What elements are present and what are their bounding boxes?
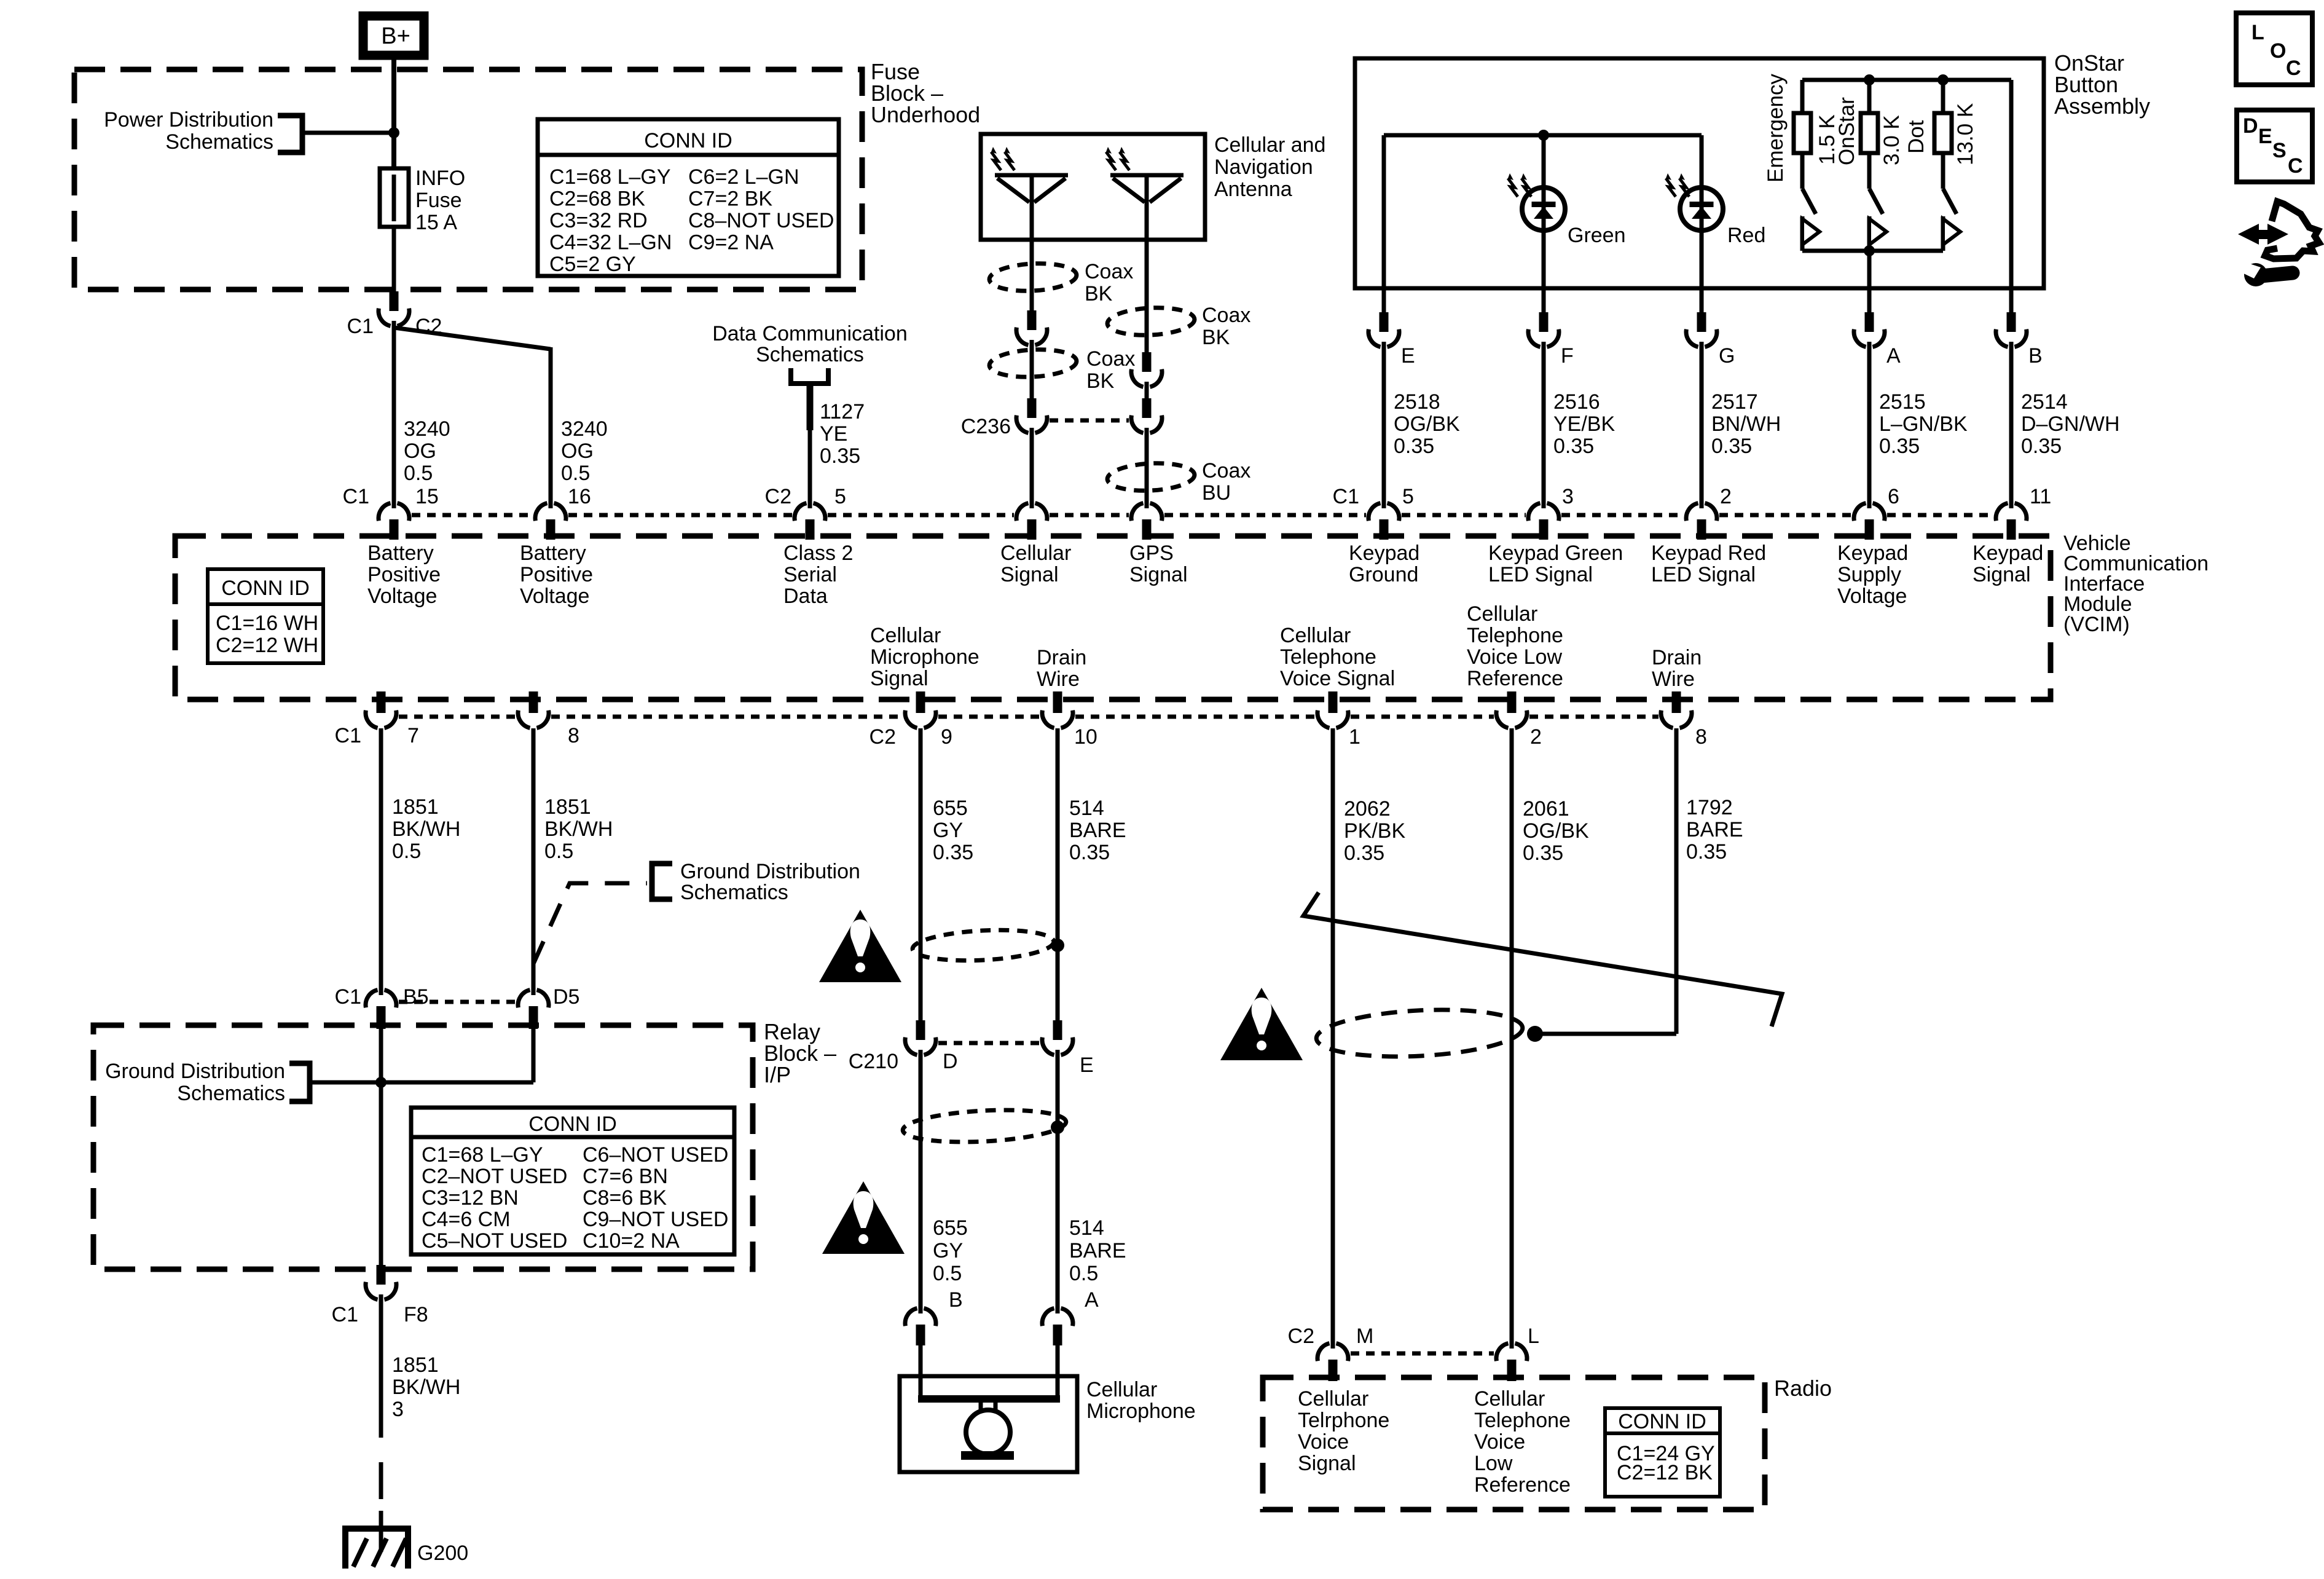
wire switch bus [1802,249,1943,253]
svg-text:GY: GY [933,1239,963,1262]
wire 655 GY upper [919,728,923,1020]
svg-text:0.35: 0.35 [1523,841,1563,865]
svg-text:G: G [1719,344,1735,368]
svg-text:Cellular: Cellular [1086,1378,1157,1401]
wire resistor rail [1802,78,2011,82]
svg-text:Ground Distribution: Ground Distribution [105,1060,285,1083]
connector VCIM top pin at x=896 [549,499,553,508]
svg-text:YE: YE [820,422,847,446]
svg-text:Serial: Serial [783,563,837,586]
svg-text:0.35: 0.35 [1069,841,1110,864]
coax shield ellipse BU [1107,461,1195,492]
OnStar button assembly box [1355,58,2044,288]
svg-text:Keypad Red: Keypad Red [1651,541,1766,565]
svg-text:C2: C2 [1288,1325,1314,1348]
microphone symbol [918,1395,1060,1403]
svg-text:C7=6 BN: C7=6 BN [583,1165,668,1188]
svg-text:C3=12 BN: C3=12 BN [422,1186,519,1210]
svg-text:Keypad: Keypad [1973,541,2043,565]
wire 514 BARE upper [1056,728,1060,1020]
warning triangle radio [1220,988,1303,1060]
svg-text:0.5: 0.5 [404,462,433,485]
connector C210 D half [916,1020,925,1040]
dotted link C236 [1050,419,1129,423]
svg-text:C1: C1 [335,985,361,1009]
svg-text:PK/BK: PK/BK [1344,819,1405,843]
bracket to power distribution [278,116,302,152]
relay block I/P dashed box [93,1025,753,1269]
svg-text:Voltage: Voltage [367,585,437,608]
switch blade S2 [1869,189,1883,214]
svg-text:C1: C1 [1333,485,1359,508]
svg-text:BK/WH: BK/WH [544,817,613,841]
wire bracket to ground node [310,1081,533,1085]
wire 1127 YE [807,384,814,430]
svg-text:1: 1 [1349,725,1360,749]
svg-text:0.35: 0.35 [1879,435,1920,458]
svg-text:Signal: Signal [870,667,928,690]
svg-text:C4=6 CM: C4=6 CM [422,1208,511,1231]
svg-text:Signal: Signal [1298,1452,1356,1475]
connector VCIM top pin at x=641 [392,499,396,508]
svg-text:0.35: 0.35 [1344,841,1384,865]
svg-text:Keypad: Keypad [1349,541,1419,565]
dotted link M L [1351,1352,1494,1356]
svg-text:C9–NOT USED: C9–NOT USED [583,1208,728,1231]
svg-text:3.0 K: 3.0 K [1880,115,1904,165]
svg-text:S: S [2272,139,2287,162]
svg-text:BK: BK [1085,282,1113,305]
svg-text:0.35: 0.35 [1394,435,1434,458]
svg-text:LED Signal: LED Signal [1488,563,1593,586]
svg-text:Coax: Coax [1086,347,1135,371]
svg-text:0.5: 0.5 [392,840,421,863]
svg-text:Signal: Signal [1000,563,1059,586]
svg-text:Positive: Positive [367,563,441,586]
coax shield ellipse left 1 [989,261,1077,293]
svg-text:Telephone: Telephone [1467,624,1563,647]
wire keypad F to VCIM [1542,347,1546,503]
svg-text:1851: 1851 [392,1353,439,1377]
connector VCIM top pin at x=2769 [1700,499,1704,508]
svg-text:Keypad: Keypad [1837,541,1908,565]
svg-text:Class 2: Class 2 [783,541,853,565]
svg-text:2: 2 [1720,485,1732,508]
svg-text:Battery: Battery [367,541,434,565]
svg-text:BU: BU [1202,481,1231,505]
antenna symbol cellular [995,173,1068,178]
svg-text:E: E [1401,344,1415,368]
svg-text:9: 9 [941,725,952,749]
svg-text:C: C [2288,154,2303,178]
power node B+ [363,16,424,55]
connector VCIM bottom pin at x=2460 [1507,691,1517,713]
svg-text:C8=6 BK: C8=6 BK [583,1186,667,1210]
resistor R2 [1867,80,1872,113]
connector VCIM top pin at x=3042 [1867,499,1872,508]
CONN ID table fuse block [538,119,839,276]
svg-text:1127: 1127 [820,400,865,423]
svg-text:Schematics: Schematics [680,881,788,904]
junction dot shield to drain lower [1051,1120,1064,1134]
warning triangle mic lower [822,1181,905,1254]
connector keypad pin E [1382,288,1386,313]
svg-text:0.35: 0.35 [2021,435,2062,458]
svg-text:0.5: 0.5 [933,1262,962,1285]
wire C236 to VCIM cellular [1030,433,1034,503]
wire 1851 BK/WH 3 [379,1300,383,1438]
svg-text:C9=2 NA: C9=2 NA [688,231,774,254]
svg-text:Cellular: Cellular [1000,541,1071,565]
svg-text:Voltage: Voltage [520,585,589,608]
svg-text:CONN ID: CONN ID [528,1112,617,1136]
dotted link B5 D5 [399,1000,516,1004]
wire D5 down [532,1025,536,1082]
svg-text:Power Distribution: Power Distribution [104,108,273,132]
antenna symbol GPS [1110,173,1184,178]
svg-text:OG: OG [561,439,594,463]
svg-text:Telephone: Telephone [1474,1409,1571,1432]
connector VCIM bottom pin at x=1498 [916,691,925,713]
svg-text:11: 11 [2030,485,2051,508]
svg-text:2062: 2062 [1344,797,1391,821]
svg-text:0.5: 0.5 [544,840,573,863]
svg-text:7: 7 [407,724,419,747]
svg-text:Cellular: Cellular [1298,1387,1368,1411]
svg-text:C: C [2286,57,2301,80]
svg-text:C5=2 GY: C5=2 GY [549,253,636,276]
svg-text:0.35: 0.35 [1686,840,1727,864]
svg-text:Coax: Coax [1202,459,1250,482]
svg-text:Green: Green [1568,224,1626,247]
svg-text:Supply: Supply [1837,563,1901,586]
switch pennant S2 [1867,216,1872,251]
svg-text:Radio: Radio [1774,1376,1832,1401]
svg-text:Coax: Coax [1085,260,1133,283]
svg-text:BARE: BARE [1069,1239,1126,1262]
coax shield ellipse left 2 [989,347,1077,379]
svg-text:Telephone: Telephone [1280,645,1376,669]
svg-text:0.35: 0.35 [933,841,973,864]
connector keypad pin B [2009,288,2014,313]
svg-text:A: A [1886,344,1901,368]
svg-text:Ground: Ground [1349,563,1418,586]
wire bracket to B+ node [302,131,394,135]
svg-text:CONN ID: CONN ID [1618,1410,1706,1433]
svg-text:13.0 K: 13.0 K [1953,103,1977,165]
svg-text:Assembly: Assembly [2054,93,2150,119]
svg-text:0.5: 0.5 [1069,1262,1098,1285]
svg-text:Reference: Reference [1474,1473,1571,1497]
svg-text:C1: C1 [335,724,361,747]
wire 1851 left [379,728,383,990]
svg-text:5: 5 [834,485,846,508]
cellular microphone box [900,1376,1077,1472]
wire keypad E to VCIM [1382,347,1386,503]
LED red [1680,187,1723,230]
svg-text:C3=32 RD: C3=32 RD [549,209,648,232]
svg-text:C8–NOT USED: C8–NOT USED [688,209,834,232]
connector VCIM top pin at x=1679 [1030,499,1034,508]
svg-text:Ground Distribution: Ground Distribution [680,860,860,883]
svg-text:Data: Data [783,585,828,608]
bracket ground distribution mid [652,864,672,899]
fuse block - underhood dashed box [74,69,862,289]
shield ellipse radio [1315,1005,1523,1061]
svg-text:B5: B5 [403,985,429,1009]
CONN ID table radio [1605,1408,1720,1497]
connector D5 [532,986,536,995]
svg-text:B: B [949,1288,963,1312]
svg-text:2514: 2514 [2021,390,2068,414]
junction dot green LED tap [1538,130,1549,141]
svg-text:Cellular and: Cellular and [1214,133,1325,157]
DESC box icon [2237,110,2312,182]
connector VCIM top pin at x=2252 [1382,499,1386,508]
svg-text:8: 8 [1695,725,1707,749]
svg-text:2: 2 [1530,725,1542,749]
svg-text:Schematics: Schematics [165,130,273,154]
warning triangle mic upper [819,910,901,982]
svg-text:L: L [2251,21,2264,44]
svg-text:15: 15 [415,485,439,508]
wire C236 to VCIM GPS [1145,433,1149,503]
svg-text:Navigation: Navigation [1214,156,1313,179]
svg-text:Voltage: Voltage [1837,585,1907,608]
dashed branch to ground distribution [533,883,647,964]
svg-text:C1: C1 [343,485,369,508]
connector mic A [1056,1304,1060,1313]
svg-text:Emergency: Emergency [1764,73,1788,183]
wire B+ to fuse [391,60,396,168]
wire red LED feed [1700,135,1704,288]
svg-text:M: M [1356,1325,1373,1348]
dashed wire to ground [379,1462,383,1499]
svg-text:B+: B+ [381,23,410,49]
svg-text:BN/WH: BN/WH [1711,412,1781,436]
svg-text:6: 6 [1888,485,1899,508]
svg-text:C210: C210 [849,1050,898,1073]
svg-text:Reference: Reference [1467,667,1563,690]
svg-text:Keypad Green: Keypad Green [1488,541,1623,565]
svg-text:BK/WH: BK/WH [392,817,460,841]
svg-text:Underhood: Underhood [871,102,980,127]
svg-text:C1=16 WH: C1=16 WH [216,612,318,635]
svg-text:Drain: Drain [1652,646,1702,669]
svg-text:OG/BK: OG/BK [1394,412,1460,436]
svg-text:Schematics: Schematics [177,1082,285,1105]
connector VCIM bottom pin at x=868 [529,691,538,713]
connector C236 right half [1142,398,1152,418]
ground G200 symbol [342,1526,411,1532]
svg-text:BK/WH: BK/WH [392,1376,460,1399]
svg-text:3240: 3240 [561,417,608,441]
view location arrow icon [2238,224,2259,245]
svg-text:Voice: Voice [1298,1430,1349,1454]
svg-text:Low: Low [1474,1452,1513,1475]
connector VCIM top pin at x=2512 [1542,499,1546,508]
svg-text:L: L [1528,1325,1539,1348]
svg-text:BARE: BARE [1686,818,1743,841]
junction dot shield radio [1527,1026,1543,1042]
svg-text:Battery: Battery [520,541,586,565]
wire B5 through relay block [379,1025,383,1265]
svg-text:Data Communication: Data Communication [712,322,907,345]
svg-text:C1=68 L–GY: C1=68 L–GY [549,165,671,189]
svg-text:2515: 2515 [1879,390,1926,414]
wire bus to pin A [1867,251,1872,288]
svg-text:(VCIM): (VCIM) [2063,613,2130,636]
connector M [1331,1339,1335,1349]
svg-text:C1=68 L–GY: C1=68 L–GY [422,1143,543,1167]
svg-text:O: O [2270,39,2286,63]
svg-text:F: F [1561,344,1574,368]
connector C236 left half [1027,398,1037,418]
svg-text:G200: G200 [417,1542,468,1565]
wire 2061 OG/BK [1510,728,1514,1343]
svg-text:C2: C2 [870,725,896,749]
svg-text:CONN ID: CONN ID [644,129,732,152]
wire branch to 16 [394,328,551,349]
connector keypad pin A [1867,288,1872,313]
svg-text:3240: 3240 [404,417,450,441]
svg-text:BARE: BARE [1069,819,1126,842]
connector C210 E half [1053,1020,1062,1040]
connector VCIM bottom pin at x=1721 [1053,691,1062,713]
svg-text:2517: 2517 [1711,390,1758,414]
svg-text:Coax: Coax [1202,304,1250,327]
svg-text:0.35: 0.35 [820,444,860,468]
svg-text:GPS: GPS [1129,541,1174,565]
connector VCIM top pin at x=1866 [1145,499,1149,508]
switch pennant S3 [1941,216,1945,251]
inline connector GPS antenna [1142,352,1152,372]
wire keypad B to VCIM [2009,347,2014,503]
resistor R3 [1941,80,1945,113]
svg-text:Drain: Drain [1037,646,1086,669]
LOC box icon [2236,13,2312,85]
svg-text:C6=2 L–GN: C6=2 L–GN [688,165,799,189]
svg-text:655: 655 [933,797,968,820]
svg-text:Signal: Signal [1129,563,1188,586]
svg-text:INFO: INFO [415,167,465,190]
dotted link VCIM top row [412,513,533,518]
bracket data communication [788,368,831,384]
svg-text:2518: 2518 [1394,390,1440,414]
junction dot resistor rail 2 [1937,74,1949,85]
svg-text:C10=2 NA: C10=2 NA [583,1229,680,1253]
svg-text:BK: BK [1086,369,1115,393]
svg-text:2516: 2516 [1553,390,1600,414]
svg-text:1792: 1792 [1686,796,1733,819]
connector F8 [377,1265,386,1285]
svg-text:C5–NOT USED: C5–NOT USED [422,1229,567,1253]
svg-text:C2–NOT USED: C2–NOT USED [422,1165,567,1188]
svg-text:C7=2 BK: C7=2 BK [688,187,772,211]
svg-text:F8: F8 [404,1303,428,1326]
cellular and navigation antenna box [981,134,1205,240]
CONN ID table relay block [411,1108,734,1254]
svg-text:CONN ID: CONN ID [221,577,310,600]
svg-text:514: 514 [1069,797,1104,820]
svg-text:16: 16 [568,485,591,508]
radio dashed box [1263,1377,1765,1510]
svg-text:1851: 1851 [392,795,439,819]
svg-text:C236: C236 [961,415,1011,438]
switch blade S3 [1943,189,1957,214]
wire fuse to connector C1 [392,227,396,291]
svg-text:Wire: Wire [1652,667,1695,691]
svg-text:Microphone: Microphone [870,645,979,669]
junction dot switch bus [1864,245,1875,256]
svg-text:Voice: Voice [1474,1430,1525,1454]
connector mic B [919,1304,923,1313]
svg-text:BK: BK [1202,326,1230,349]
svg-text:15 A: 15 A [415,211,457,234]
switch blade S1 [1802,189,1816,214]
wire cellular to C236 [1030,345,1034,398]
svg-text:514: 514 [1069,1216,1104,1240]
svg-text:0.5: 0.5 [561,462,590,485]
junction dot shield to drain upper [1051,939,1064,952]
svg-text:Antenna: Antenna [1214,178,1292,201]
junction dot resistor rail 1 [1864,74,1875,85]
svg-text:E: E [1080,1053,1094,1077]
svg-text:Cellular: Cellular [870,624,941,647]
svg-text:655: 655 [933,1216,968,1240]
svg-text:B: B [2028,344,2043,368]
svg-text:0.35: 0.35 [1711,435,1752,458]
connector VCIM bottom pin at x=620 [377,691,386,713]
svg-text:Telrphone: Telrphone [1298,1409,1389,1432]
svg-text:Voice Low: Voice Low [1467,645,1562,669]
wire 1792 BARE drain [1674,728,1679,1034]
svg-text:3: 3 [1562,485,1574,508]
wire 2062 PK/BK [1331,728,1335,1343]
dotted link C210 [938,1041,1040,1045]
svg-text:A: A [1085,1288,1099,1312]
wire keypad A to VCIM [1867,347,1872,503]
twisted pair marker [1303,892,1782,1026]
svg-text:Schematics: Schematics [756,343,864,366]
svg-text:OG: OG [404,439,436,463]
svg-text:2061: 2061 [1523,797,1569,821]
wire 1851 right [532,728,536,990]
wire LED supply rail [1384,133,1702,138]
svg-text:D: D [2243,114,2258,138]
wire E to mic [1056,1055,1060,1308]
svg-text:GY: GY [933,819,963,842]
svg-text:Wire: Wire [1037,667,1080,691]
wire D to mic [919,1055,923,1308]
svg-text:C2=12 BK: C2=12 BK [1617,1461,1713,1484]
connector keypad pin G [1700,288,1704,313]
svg-text:OnStar: OnStar [1835,97,1859,165]
VCIM dashed box [175,536,2051,699]
svg-text:Microphone: Microphone [1086,1400,1196,1423]
dotted link VCIM bottom row [399,715,516,719]
junction dot ground join [375,1077,387,1088]
wrench icon [2244,263,2267,286]
wire 3240 OG left [392,326,396,503]
fuse F1 INFO 15A [380,168,409,227]
connector fuse block output C1/C2 [390,291,399,311]
shield ellipse mic lower [902,1106,1067,1146]
svg-text:C4=32 L–GN: C4=32 L–GN [549,231,672,254]
shield ellipse mic upper [912,927,1054,964]
svg-text:YE/BK: YE/BK [1553,412,1615,436]
svg-text:5: 5 [1402,485,1414,508]
